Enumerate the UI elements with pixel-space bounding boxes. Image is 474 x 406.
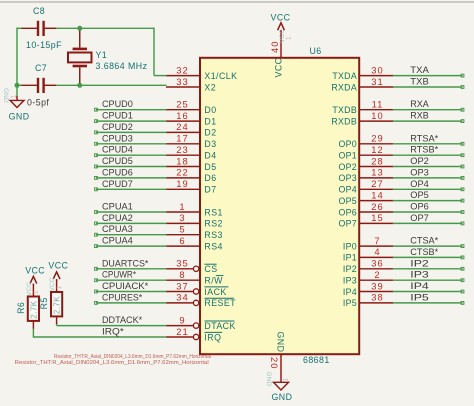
wire CPUD7 [95, 188, 167, 191]
label CPUWR* [102, 270, 136, 280]
power symbol VCC (R5) [48, 261, 68, 292]
label CPUD2 [102, 122, 133, 132]
svg-text:GND: GND [9, 112, 30, 122]
wire CPUA4 [95, 245, 167, 248]
svg-text:D1: D1 [204, 116, 216, 126]
svg-text:1: 1 [179, 201, 185, 212]
svg-text:OP0: OP0 [338, 139, 357, 149]
wire CTSA* [393, 245, 464, 248]
IC U6 body [200, 58, 359, 354]
IC U6 pin 25 D0 (left) [166, 99, 217, 116]
svg-text:39: 39 [371, 280, 383, 291]
label OP2 [410, 156, 429, 166]
IC U6 pin 9 DTACK (left) [166, 314, 236, 331]
svg-text:4: 4 [374, 246, 380, 257]
svg-text:VCC: VCC [25, 266, 45, 276]
R5 footprint field [54, 354, 211, 360]
svg-text:CPUIACK*: CPUIACK* [102, 281, 149, 291]
svg-text:X2: X2 [204, 82, 216, 92]
label CPUD7 [102, 179, 133, 189]
R6 reference [16, 302, 26, 314]
svg-text:VCC: VCC [49, 277, 56, 291]
svg-text:14: 14 [371, 189, 383, 200]
svg-text:OP3: OP3 [338, 173, 357, 183]
label IP5 [410, 292, 429, 302]
label CTSA* [410, 236, 438, 246]
svg-text:23: 23 [176, 144, 188, 155]
IC U6 pin 19 D7 (left) [166, 178, 217, 195]
junction at crystal bottom [77, 83, 82, 88]
svg-text:31: 31 [371, 76, 383, 87]
label OP5 [410, 190, 429, 200]
IC U6 pin 5 RS3 (left) [166, 224, 223, 241]
C8 value 10-15pF [26, 40, 62, 50]
wire TXA [393, 74, 464, 77]
wire OP6 [393, 211, 464, 214]
svg-text:GND: GND [265, 372, 272, 387]
svg-text:5: 5 [179, 224, 185, 235]
IC U6 pin 34 RESET (left) [166, 292, 236, 309]
wire: rail down to GND [16, 85, 18, 100]
svg-text:GND: GND [272, 392, 293, 402]
wire CPUD2 [95, 131, 167, 134]
svg-text:1: 1 [11, 94, 18, 98]
svg-text:RXDA: RXDA [331, 82, 357, 92]
wire RTSA* [393, 142, 464, 145]
label TXA [410, 65, 429, 75]
svg-text:17: 17 [176, 133, 188, 144]
svg-text:R5: R5 [39, 297, 49, 309]
label IP2 [410, 258, 429, 268]
svg-text:TXDB: TXDB [332, 105, 357, 115]
svg-text:OP3: OP3 [410, 167, 429, 177]
svg-text:RS4: RS4 [204, 241, 222, 251]
svg-text:11: 11 [372, 99, 384, 110]
IC U6 pin 27 OP4 (right) [338, 178, 393, 195]
IC U6 pin 17 D3 (left) [166, 133, 217, 150]
wire: R6 bottom to IRQ* [32, 329, 34, 338]
svg-text:C8: C8 [33, 6, 45, 16]
svg-text:D3: D3 [204, 139, 216, 149]
svg-text:D7: D7 [204, 185, 216, 195]
IC U6 pin 15 OP7 (right) [338, 212, 393, 229]
svg-text:TXB: TXB [410, 77, 429, 87]
svg-text:RS2: RS2 [204, 219, 222, 229]
IC U6 pin 40 VCC (top) [269, 29, 293, 78]
svg-text:28: 28 [371, 155, 383, 166]
svg-text:1: 1 [283, 377, 290, 381]
IC U6 pin 38 IP5 (right) [343, 292, 393, 309]
svg-text:37: 37 [176, 280, 188, 291]
svg-text:33: 33 [176, 76, 188, 87]
svg-text:3.6864 MHz: 3.6864 MHz [96, 61, 148, 71]
svg-text:34: 34 [176, 292, 188, 303]
wire TXB [393, 86, 464, 89]
svg-text:1: 1 [286, 36, 293, 40]
svg-text:D0: D0 [204, 105, 216, 115]
svg-text:IP5: IP5 [410, 292, 429, 302]
label CPUD6 [102, 167, 133, 177]
junction at crystal top [77, 26, 82, 31]
Y1 value 3.6864 MHz [96, 61, 148, 71]
svg-text:RESET: RESET [204, 298, 236, 308]
R6 value 2.7K [29, 300, 38, 318]
wire: C7 to crystal-bottom junction and over to X2 [56, 84, 167, 86]
wire CPURES* [95, 302, 167, 305]
svg-text:35: 35 [176, 258, 188, 269]
IC U6 pin 18 D5 (left) [166, 155, 217, 172]
svg-text:3: 3 [179, 212, 185, 223]
svg-text:OP5: OP5 [338, 196, 357, 206]
label OP4 [410, 179, 429, 189]
IC U6 pin 37 IACK (left) [166, 280, 228, 297]
label CPUA4 [102, 236, 133, 246]
svg-text:RXDB: RXDB [331, 116, 357, 126]
svg-text:IP4: IP4 [343, 287, 357, 297]
wire RXB [393, 120, 464, 123]
svg-text:DUARTCS*: DUARTCS* [102, 258, 149, 268]
svg-text:18: 18 [176, 155, 188, 166]
IC U6 pin 2 IP3 (right) [343, 269, 393, 286]
svg-text:CPUD7: CPUD7 [102, 179, 133, 189]
wire CPUD5 [95, 165, 167, 168]
svg-text:IP4: IP4 [410, 281, 429, 291]
svg-text:VCC: VCC [274, 57, 284, 77]
label CPUA1 [102, 202, 133, 212]
wire OP7 [393, 222, 464, 225]
IC U6 pin 12 OP1 (right) [338, 144, 393, 161]
svg-text:VCC: VCC [26, 282, 33, 296]
wire CPUD0 [95, 108, 167, 111]
wire RXA [393, 108, 464, 111]
wire DDTACK* [57, 325, 167, 327]
svg-text:0-5pf: 0-5pf [27, 98, 49, 108]
IC U6 pin 33 X2 (left) [166, 76, 216, 93]
svg-text:OP6: OP6 [338, 207, 357, 217]
svg-text:2: 2 [374, 269, 380, 280]
IC U6 pin 35 CS (left) [166, 258, 218, 275]
svg-text:TXA: TXA [410, 65, 429, 75]
svg-text:22: 22 [176, 167, 188, 178]
svg-text:RTSA*: RTSA* [410, 133, 438, 143]
wire CPUD4 [95, 154, 167, 157]
label CTSB* [410, 247, 438, 257]
svg-text:IACK: IACK [204, 287, 226, 297]
power symbol VCC (U6 pin 40) [271, 13, 291, 31]
label DDTACK* [102, 315, 143, 325]
svg-text:U6: U6 [310, 46, 322, 56]
svg-text:2.7K: 2.7K [29, 300, 38, 318]
wire CTSB* [393, 256, 464, 259]
svg-text:OP4: OP4 [338, 185, 357, 195]
IC U6 reference U6 [310, 46, 322, 56]
svg-text:16: 16 [176, 110, 188, 121]
svg-text:CPUA2: CPUA2 [102, 213, 133, 223]
svg-text:Y1: Y1 [96, 50, 108, 60]
power symbol GND (crystal rail) [2, 88, 30, 122]
svg-text:OP6: OP6 [410, 202, 429, 212]
svg-text:29: 29 [371, 133, 383, 144]
svg-text:27: 27 [371, 178, 383, 189]
svg-text:OP2: OP2 [338, 162, 357, 172]
label RXA [410, 99, 429, 109]
svg-text:IP1: IP1 [343, 253, 357, 263]
label IP4 [410, 281, 429, 291]
label OP3 [410, 167, 429, 177]
svg-text:CPURES*: CPURES* [102, 292, 143, 302]
svg-text:OP2: OP2 [410, 156, 429, 166]
label RTSA* [410, 133, 438, 143]
svg-text:CPUD1: CPUD1 [102, 111, 133, 121]
svg-text:10: 10 [371, 110, 383, 121]
svg-text:CPUD2: CPUD2 [102, 122, 133, 132]
IC U6 pin 26 OP6 (right) [338, 201, 393, 218]
capacitor C7 [21, 63, 57, 93]
label CPUA3 [102, 224, 133, 234]
svg-text:IP5: IP5 [343, 298, 357, 308]
label OP6 [410, 202, 429, 212]
wire OP2 [393, 165, 464, 168]
wire CPUWR* [95, 279, 167, 282]
IC U6 pin 28 OP2 (right) [338, 155, 393, 172]
IC U6 pin 21 IRQ (left) [166, 326, 222, 343]
svg-text:C7: C7 [35, 63, 47, 73]
svg-text:CPUD0: CPUD0 [102, 99, 133, 109]
svg-text:VCC: VCC [48, 261, 68, 271]
power symbol VCC (R6) [25, 266, 45, 296]
R6 footprint field [15, 360, 209, 366]
svg-text:OP5: OP5 [410, 190, 429, 200]
svg-text:CPUA3: CPUA3 [102, 224, 133, 234]
svg-text:CPUA1: CPUA1 [102, 202, 133, 212]
svg-text:IP2: IP2 [343, 264, 357, 274]
svg-text:32: 32 [176, 64, 188, 75]
wire CPUA2 [95, 222, 167, 225]
IC U6 pin 30 TXDA (right) [332, 64, 393, 81]
IC U6 pin 13 OP3 (right) [338, 167, 393, 184]
svg-text:OP7: OP7 [338, 219, 357, 229]
wire IP5 [393, 302, 464, 305]
label CPUD3 [102, 133, 133, 143]
svg-text:CPUD6: CPUD6 [102, 167, 133, 177]
IC U6 pin 1 RS1 (left) [166, 201, 223, 218]
IC U6 pin 32 X1/CLK (left) [166, 64, 237, 81]
R5 value 2.7K [53, 296, 62, 314]
svg-text:CTSA*: CTSA* [410, 236, 438, 246]
resistor R5 [51, 280, 62, 324]
svg-text:15: 15 [371, 212, 383, 223]
svg-text:8: 8 [179, 269, 185, 280]
IC U6 pin 29 OP0 (right) [338, 133, 393, 150]
wire: C8 to crystal-top junction and over to X1/CLK [56, 28, 167, 76]
svg-text:X1/CLK: X1/CLK [204, 71, 237, 81]
svg-text:68681: 68681 [303, 355, 330, 365]
IC U6 pin 7 IP0 (right) [343, 235, 393, 252]
svg-text:RXB: RXB [410, 111, 429, 121]
label CPUIACK* [102, 281, 149, 291]
wire CPUA3 [95, 233, 167, 236]
svg-text:CS: CS [204, 264, 217, 274]
IC U6 pin 22 D6 (left) [166, 167, 217, 184]
svg-text:36: 36 [371, 258, 383, 269]
svg-text:OP4: OP4 [410, 179, 429, 189]
svg-text:IP3: IP3 [410, 270, 429, 280]
crystal Y1 [68, 28, 107, 85]
svg-text:DTACK: DTACK [204, 321, 235, 331]
wire: left vertical C8-C7 rail [17, 28, 22, 87]
wire DUARTCS* [95, 267, 167, 270]
IC U6 value 68681 [303, 355, 330, 365]
wire CPUD6 [95, 177, 167, 180]
label RXB [410, 111, 429, 121]
svg-text:CPUA4: CPUA4 [102, 236, 133, 246]
wire: R5 bottom to DDTACK* [56, 324, 58, 326]
svg-text:VCC: VCC [271, 13, 291, 23]
svg-text:20: 20 [269, 357, 280, 369]
svg-text:IP2: IP2 [410, 258, 429, 268]
label IRQ* [102, 327, 124, 337]
svg-text:6: 6 [179, 235, 185, 246]
IC U6 pin 31 RXDA (right) [331, 76, 393, 93]
capacitor C8 [21, 6, 57, 36]
label CPUD5 [102, 156, 133, 166]
svg-text:Resistor_THT:R_Axial_DIN0204_L: Resistor_THT:R_Axial_DIN0204_L3.6mm_D1.6… [15, 360, 209, 366]
svg-text:13: 13 [371, 167, 383, 178]
label CPUD1 [102, 111, 133, 121]
svg-text:TXDA: TXDA [332, 71, 357, 81]
IC U6 pin 8 R/W (left) [166, 269, 223, 286]
svg-text:7: 7 [374, 235, 380, 246]
IC U6 pin 4 IP1 (right) [343, 246, 393, 263]
label CPUA2 [102, 213, 133, 223]
label DUARTCS* [102, 258, 149, 268]
wire OP3 [393, 177, 464, 180]
wire CPUD1 [95, 120, 167, 123]
wire CPUA1 [95, 211, 167, 214]
svg-text:RS3: RS3 [204, 230, 222, 240]
svg-text:1: 1 [33, 290, 40, 294]
svg-text:IP0: IP0 [343, 241, 357, 251]
svg-text:D4: D4 [204, 151, 216, 161]
svg-text:D2: D2 [204, 128, 216, 138]
wire IP2 [393, 267, 464, 270]
IC U6 pin 14 OP5 (right) [338, 189, 393, 206]
svg-text:10-15pF: 10-15pF [26, 40, 62, 50]
IC U6 pin 23 D4 (left) [166, 144, 217, 161]
svg-text:9: 9 [179, 314, 185, 325]
power symbol GND (U6 pin 20) [272, 382, 293, 402]
svg-text:24: 24 [176, 121, 188, 132]
label CPURES* [102, 292, 143, 302]
svg-text:CPUD5: CPUD5 [102, 156, 133, 166]
svg-text:2.7K: 2.7K [53, 296, 62, 314]
label RTSB* [410, 145, 438, 155]
resistor R6 [28, 285, 39, 329]
svg-text:OP7: OP7 [410, 213, 429, 223]
svg-text:OP1: OP1 [338, 151, 357, 161]
C7 value 0-5pf [27, 98, 49, 108]
wire IP3 [393, 279, 464, 282]
svg-text:25: 25 [176, 99, 188, 110]
svg-text:RXA: RXA [410, 99, 429, 109]
svg-text:30: 30 [371, 64, 383, 75]
svg-text:IRQ*: IRQ* [102, 327, 124, 337]
svg-text:19: 19 [176, 178, 188, 189]
svg-text:R6: R6 [16, 302, 26, 314]
label CPUD4 [102, 145, 133, 155]
R5 reference [39, 297, 49, 309]
svg-text:12: 12 [371, 144, 383, 155]
svg-text:CPUWR*: CPUWR* [102, 270, 136, 280]
svg-text:R/W: R/W [204, 276, 223, 286]
svg-text:21: 21 [176, 326, 188, 337]
wire IRQ* [33, 336, 167, 338]
svg-text:CTSB*: CTSB* [410, 247, 438, 257]
svg-text:26: 26 [371, 201, 383, 212]
svg-text:GND: GND [276, 332, 286, 353]
IC U6 pin 16 D1 (left) [166, 110, 217, 127]
wire CPUD3 [95, 142, 167, 145]
wire OP5 [393, 199, 464, 202]
IC U6 pin 11 TXDB (right) [332, 99, 393, 116]
IC U6 pin 6 RS4 (left) [166, 235, 223, 252]
label TXB [410, 77, 429, 87]
IC U6 pin 36 IP2 (right) [343, 258, 393, 275]
junction at GND rail [15, 83, 20, 88]
svg-text:IRQ: IRQ [204, 332, 221, 342]
svg-text:DDTACK*: DDTACK* [102, 315, 143, 325]
svg-text:RTSB*: RTSB* [410, 145, 438, 155]
wire CPUIACK* [95, 290, 167, 293]
IC U6 pin 24 D2 (left) [166, 121, 217, 138]
svg-text:GND: GND [2, 88, 9, 103]
IC U6 pin 10 RXDB (right) [331, 110, 393, 127]
label IP3 [410, 270, 429, 280]
IC U6 pin 39 IP4 (right) [343, 280, 393, 297]
svg-text:1: 1 [56, 285, 63, 289]
wire OP4 [393, 188, 464, 191]
wire IP4 [393, 290, 464, 293]
wire RTSB* [393, 154, 464, 157]
label CPUD0 [102, 99, 133, 109]
label OP7 [410, 213, 429, 223]
svg-text:CPUD3: CPUD3 [102, 133, 133, 143]
IC U6 pin 3 RS2 (left) [166, 212, 223, 229]
svg-text:CPUD4: CPUD4 [102, 145, 133, 155]
svg-text:D6: D6 [204, 173, 216, 183]
svg-text:D5: D5 [204, 162, 216, 172]
svg-text:38: 38 [371, 292, 383, 303]
svg-text:IP3: IP3 [343, 276, 357, 286]
IC U6 pin 20 GND (bottom) [265, 332, 290, 387]
svg-text:RS1: RS1 [204, 207, 222, 217]
